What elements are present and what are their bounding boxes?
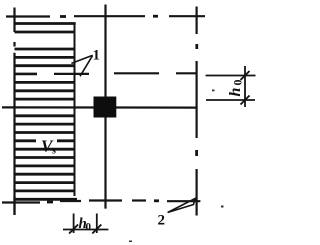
bottom dimension h0: slash terminators: [69, 225, 101, 234]
bottom horizontal centerline: [2, 201, 200, 203]
svg-text:s: s: [52, 146, 56, 157]
svg-text:h: h: [227, 88, 244, 97]
top horizontal centerline: [6, 15, 205, 17]
svg-text:0: 0: [231, 80, 245, 86]
hatch strip left border: [13, 42, 15, 215]
right vertical centerline: [196, 7, 198, 216]
dashed critical-section line: [15, 72, 197, 75]
stray scan specks: [129, 90, 224, 243]
bottom axis tick (left border crossing): [13, 196, 15, 215]
hatch strip right border: [74, 24, 76, 197]
right dimension h0: extension lines: [206, 76, 256, 101]
column vertical centerline: [104, 5, 106, 209]
left axis tick: [13, 8, 15, 33]
svg-text:2: 2: [158, 213, 166, 229]
column (black square): [94, 97, 117, 118]
right dimension h0: dimension line: [244, 66, 246, 107]
right dimension h0: label: [227, 80, 245, 97]
column horizontal centerline: [2, 106, 197, 108]
hatch lines: [15, 24, 78, 200]
right dimension h0: slash terminators: [241, 71, 250, 105]
svg-text:1: 1: [93, 48, 101, 64]
leader 2 (sliver arrow to centerline crossing): [168, 199, 195, 213]
bottom dimension h0: extension lines: [74, 214, 97, 234]
hatch line broken by Vs label: [15, 139, 75, 142]
bottom dimension h0: dimension line: [63, 229, 108, 231]
svg-text:0: 0: [86, 221, 92, 233]
leader 1 (two-prong sliver arrow): [71, 55, 92, 76]
